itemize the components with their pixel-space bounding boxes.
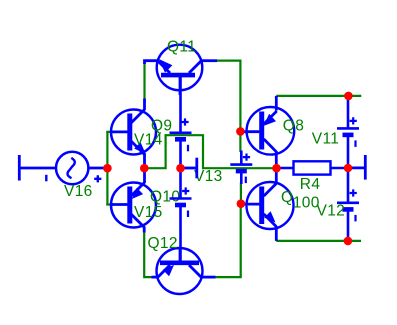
- transistor Q12: [152, 248, 216, 294]
- arrow of Q100 emitter: [264, 211, 275, 222]
- arrow of Q8 emitter: [264, 114, 276, 126]
- transistor Q8: [241, 96, 294, 168]
- junction dot: battery mid node: [176, 164, 185, 173]
- junction dot: left emitter node: [140, 164, 149, 173]
- junction dot: output node: [272, 164, 281, 173]
- arrow of Q12 emitter: [163, 265, 174, 276]
- junction dot: Q100 base node: [237, 199, 246, 208]
- wire: base riser from V16 node to Q9/Q10 bases: [106, 132, 114, 205]
- arrow of Q9 emitter: [134, 142, 145, 153]
- battery V13: [230, 151, 252, 185]
- arrow of Q10 emitter: [132, 188, 143, 199]
- svg-text:Q11: Q11: [167, 38, 196, 55]
- battery V14: [170, 77, 192, 168]
- svg-text:V15: V15: [134, 204, 163, 221]
- wire: Q8 base node down to V13 top: [239, 132, 241, 152]
- wire: top rail from Q8 collector to V11: [276, 95, 361, 97]
- transistor Q100: [242, 168, 294, 241]
- wire: V13 bottom to Q100 base node: [240, 183, 242, 204]
- junction dot: input node: [103, 164, 112, 173]
- wire: bottom rail from Q100 emitter to V12: [276, 240, 361, 242]
- junction dot: bottom rail: [344, 237, 353, 246]
- battery V11: [337, 97, 359, 168]
- battery V12: [337, 168, 359, 241]
- transistor Q11: [145, 45, 218, 95]
- junction dot: top rail: [344, 92, 353, 101]
- svg-text:V14: V14: [134, 131, 163, 148]
- terminal: right output stub: [348, 155, 365, 180]
- wire: Q10 collector to Q12 left lead: [144, 232, 152, 278]
- source V16: [19, 152, 106, 184]
- transistor Q10: [111, 168, 157, 233]
- junction dot: Q8 base node: [236, 127, 245, 136]
- svg-text:V12: V12: [317, 203, 346, 220]
- resistor R4: [277, 161, 348, 174]
- wire: Q12 right lead up to Q100 base node: [215, 204, 241, 277]
- svg-text:V13: V13: [194, 168, 223, 185]
- svg-text:Q12: Q12: [148, 235, 178, 252]
- svg-text:Q: Q: [281, 189, 293, 206]
- arrow of Q11 emitter: [159, 59, 173, 73]
- junction dot: right mid node: [344, 164, 353, 173]
- svg-text:V16: V16: [64, 183, 93, 200]
- wire: Q11 right lead down to Q8 base node: [216, 61, 240, 132]
- battery V15: [170, 168, 192, 262]
- svg-text:V11: V11: [312, 130, 339, 147]
- svg-text:Q8: Q8: [283, 117, 304, 134]
- svg-text:R4: R4: [300, 176, 321, 193]
- wire: Q11 left lead to Q9 collector: [143, 62, 145, 99]
- transistor Q9: [111, 99, 157, 169]
- wire: emitter node to output node routed over V14: [144, 135, 276, 168]
- terminal: mid node stub: [181, 158, 197, 179]
